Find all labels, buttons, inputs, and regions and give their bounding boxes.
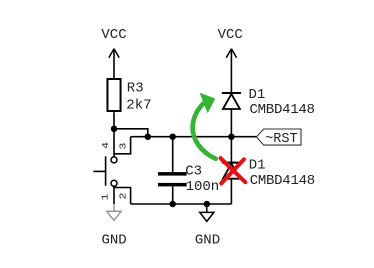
switch SW contact circle top xyxy=(111,157,117,163)
diode D1 (top) triangle xyxy=(223,94,240,109)
capacitor C3 bottom lead xyxy=(172,186,174,204)
svg-text:R3: R3 xyxy=(127,80,144,96)
junction right GND tap xyxy=(204,201,211,208)
power symbol VCC (right) arrow xyxy=(226,49,236,58)
diode D1 (bottom, deleted) cathode bar xyxy=(222,162,241,164)
wire VCC-left to R3 top xyxy=(113,49,115,78)
svg-text:~RST: ~RST xyxy=(265,132,297,147)
svg-text:GND: GND xyxy=(101,232,126,248)
diode D1 (top) cathode bar xyxy=(222,92,241,94)
wire VCC-right column xyxy=(230,49,232,204)
wire mid bus to -RST xyxy=(131,136,257,138)
junction node C xyxy=(169,133,176,140)
svg-text:1: 1 xyxy=(101,194,112,201)
annotation green arrow xyxy=(193,93,216,159)
resistor R3 xyxy=(107,79,120,111)
svg-text:D1: D1 xyxy=(249,87,266,103)
global label ~RST flag outline xyxy=(256,129,301,145)
wire jog node A to node B xyxy=(114,129,148,137)
svg-text:3: 3 xyxy=(119,143,130,150)
svg-text:C3: C3 xyxy=(185,163,202,179)
svg-text:CMBD4148: CMBD4148 xyxy=(250,102,315,118)
annotation red X over deleted D1 xyxy=(221,158,246,183)
switch SW contact circle bottom xyxy=(111,180,117,186)
svg-text:4: 4 xyxy=(101,142,112,149)
svg-text:VCC: VCC xyxy=(101,27,126,43)
wire switch pin 3 bracket xyxy=(114,137,131,154)
junction cap bottom xyxy=(169,201,176,208)
ground symbol GND (right) xyxy=(200,204,214,221)
svg-text:100n: 100n xyxy=(186,179,220,195)
svg-text:D1: D1 xyxy=(249,158,266,174)
svg-text:CMBD4148: CMBD4148 xyxy=(250,173,315,189)
switch SW actuator stem xyxy=(93,170,105,172)
wire switch pin 1 lead xyxy=(113,186,115,204)
svg-text:2k7: 2k7 xyxy=(126,98,151,114)
svg-text:VCC: VCC xyxy=(218,27,243,43)
junction node B xyxy=(145,133,152,140)
capacitor C3 plates xyxy=(158,172,187,186)
diode D1 (bottom, deleted) triangle xyxy=(223,164,240,179)
junction node A xyxy=(111,126,118,133)
svg-text:2: 2 xyxy=(119,193,130,200)
switch SW actuator bar xyxy=(105,156,107,185)
ground symbol GND (left, gray) xyxy=(107,204,121,220)
wire switch pin 4 lead xyxy=(113,129,115,157)
capacitor C3 top lead xyxy=(172,137,174,172)
wire switch pin 2 bracket xyxy=(114,188,131,205)
wire R3 bottom to node A xyxy=(113,112,115,129)
junction node D xyxy=(228,133,235,140)
wire bottom bus xyxy=(131,203,232,205)
svg-text:GND: GND xyxy=(195,232,220,248)
power symbol VCC (left) arrow xyxy=(109,49,119,58)
